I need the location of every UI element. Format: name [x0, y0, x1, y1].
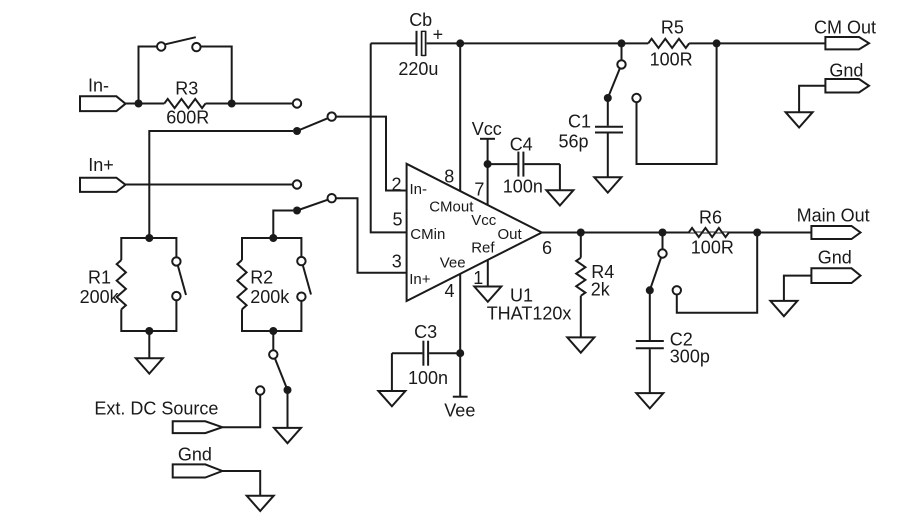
wire gnd right — [784, 276, 812, 301]
svg-text:+: + — [433, 25, 444, 45]
svg-text:5: 5 — [393, 210, 403, 230]
svg-text:Ext. DC Source: Ext. DC Source — [94, 399, 218, 419]
wire gnd top right — [799, 86, 825, 112]
svg-text:Vcc: Vcc — [472, 119, 502, 139]
svg-text:Main Out: Main Out — [797, 205, 870, 225]
resistor R1 network box — [121, 238, 176, 260]
ground pin 1 — [474, 287, 501, 302]
wire pin 4 Vee — [459, 274, 461, 397]
node junction C1 switch rail — [618, 39, 626, 47]
svg-text:THAT120x: THAT120x — [487, 303, 572, 323]
svg-text:U1: U1 — [510, 285, 533, 305]
node junction R6 right — [753, 229, 761, 237]
svg-text:2: 2 — [392, 174, 402, 194]
input connector Ext. DC Source — [173, 421, 223, 433]
svg-text:C4: C4 — [510, 135, 533, 155]
svg-text:Out: Out — [498, 226, 523, 243]
resistor R4 — [580, 233, 582, 258]
svg-text:6: 6 — [542, 238, 552, 258]
svg-text:R3: R3 — [175, 78, 198, 98]
switch S3 bypass — [157, 42, 165, 50]
wire CMin pin 5 — [371, 43, 407, 232]
svg-text:4: 4 — [445, 281, 455, 301]
input connector In- — [80, 96, 126, 111]
capacitor Cb — [371, 42, 416, 44]
node junction C2 switch — [659, 229, 667, 237]
ground C2 — [636, 393, 663, 408]
switch S1 pole to pin2 — [293, 127, 301, 135]
capacitor C4 — [488, 163, 518, 165]
wire R2 bottom — [242, 301, 301, 331]
ground right — [770, 301, 797, 316]
svg-text:In-: In- — [88, 75, 109, 95]
svg-text:Gnd: Gnd — [818, 248, 852, 268]
svg-text:R1: R1 — [88, 268, 111, 288]
svg-text:R5: R5 — [661, 17, 684, 37]
op-amp U1 triangle — [407, 164, 542, 301]
svg-text:In+: In+ — [409, 271, 431, 288]
switch S5 across R2 — [297, 257, 305, 265]
node main loop terminal — [673, 286, 681, 294]
ground top right — [786, 112, 813, 127]
resistor R1 — [117, 260, 126, 309]
ground C4 — [559, 164, 561, 190]
node junction R4 — [577, 229, 585, 237]
svg-text:R6: R6 — [699, 208, 722, 228]
svg-text:2k: 2k — [591, 279, 611, 299]
switch S6 ext dc select — [272, 331, 274, 350]
wire gnd bottom — [222, 471, 260, 496]
switch S4 across R1 — [172, 257, 180, 265]
wire pin 7 Vcc — [487, 164, 489, 205]
svg-text:CMin: CMin — [410, 226, 445, 243]
node feedback terminal — [632, 94, 640, 102]
output connector Gnd right — [811, 268, 860, 283]
resistor R6 — [689, 228, 729, 237]
svg-text:In-: In- — [410, 181, 428, 198]
wire switch to pin 3 — [336, 198, 407, 273]
svg-text:R2: R2 — [250, 268, 273, 288]
ground R4 — [580, 296, 582, 338]
node junction R2 bottom — [269, 327, 277, 335]
switch S7 C1 select — [621, 43, 623, 60]
ground C3 — [391, 353, 393, 391]
svg-text:100n: 100n — [408, 368, 448, 388]
svg-text:3: 3 — [392, 252, 402, 272]
node junction C3 — [456, 349, 464, 357]
svg-text:100n: 100n — [503, 177, 543, 197]
ground C1 — [594, 177, 621, 192]
switch S8 C2 select — [662, 233, 664, 250]
svg-text:Vee: Vee — [444, 400, 475, 420]
svg-text:100R: 100R — [691, 238, 734, 258]
node junction R2 top — [269, 234, 277, 242]
output connector Main Out — [811, 226, 860, 239]
svg-text:7: 7 — [474, 180, 484, 200]
svg-text:C3: C3 — [414, 322, 437, 342]
wire R3 right to terminal — [206, 103, 293, 105]
wire top rail — [427, 42, 649, 44]
wire output pin 6 — [542, 232, 812, 234]
svg-text:C1: C1 — [568, 112, 591, 132]
wire R1 bottom — [121, 300, 176, 331]
wire pin 1 Ref — [487, 260, 489, 287]
power Vee terminal — [453, 396, 468, 398]
svg-text:1: 1 — [473, 268, 483, 288]
switch S2 pole to pin3 — [293, 207, 301, 215]
output connector CM Out — [825, 37, 869, 49]
ground R1 — [148, 331, 150, 358]
wire ext dc — [222, 395, 260, 428]
svg-text:Vee: Vee — [440, 254, 466, 271]
node open terminal In+ line — [293, 180, 301, 188]
svg-text:56p: 56p — [559, 131, 589, 151]
node junction right of R3 — [228, 100, 236, 108]
wire main feedback loop — [677, 233, 757, 313]
resistor R5 — [648, 39, 689, 48]
node junction Vcc pin7 — [484, 160, 492, 168]
svg-text:8: 8 — [444, 166, 454, 186]
wire pin 8 CMout — [459, 43, 461, 191]
wire switch to pin 2 — [336, 117, 407, 191]
resistor R2 — [237, 260, 246, 309]
capacitor C2 — [649, 290, 651, 340]
node junction R1 bottom — [145, 327, 153, 335]
wire R1 top to In- switch pole — [149, 131, 293, 238]
wire In+ to terminal — [126, 184, 293, 186]
power Vcc symbol — [480, 138, 495, 140]
resistor R2 network box — [242, 238, 301, 260]
node junction pin8 rail — [456, 39, 464, 47]
node open terminal In- line — [293, 99, 301, 107]
output connector Gnd top right — [825, 79, 869, 93]
svg-text:200k: 200k — [250, 287, 290, 307]
wire R2 top to In+ switch pole — [273, 211, 293, 239]
svg-text:100R: 100R — [650, 50, 693, 70]
wire feedback loop — [637, 43, 717, 164]
svg-text:Gnd: Gnd — [178, 444, 212, 464]
capacitor C1 — [607, 98, 609, 126]
wire R5 to CM Out — [689, 42, 825, 44]
svg-text:Gnd: Gnd — [829, 61, 863, 81]
wire R3 bypass left vertical — [139, 47, 157, 104]
node junction R5 right — [713, 39, 721, 47]
svg-text:Cb: Cb — [409, 10, 432, 30]
svg-text:220u: 220u — [398, 59, 438, 79]
node ext dc terminal — [256, 386, 264, 394]
svg-text:Vcc: Vcc — [471, 212, 497, 229]
svg-text:In+: In+ — [88, 155, 114, 175]
capacitor C3 — [429, 352, 460, 354]
wire R3 bypass right vertical — [201, 47, 232, 104]
input connector In+ — [80, 178, 126, 192]
node junction R1 top — [145, 234, 153, 242]
ground bottom — [247, 496, 274, 511]
ground switch S6 — [287, 390, 289, 428]
svg-text:600R: 600R — [166, 107, 209, 127]
wire In- to R3 — [126, 103, 165, 105]
input connector Gnd bottom — [173, 464, 223, 477]
resistor R3 — [164, 99, 205, 108]
svg-text:CMout: CMout — [429, 198, 474, 215]
svg-text:CM Out: CM Out — [814, 18, 876, 38]
node junction left of R3 — [135, 100, 143, 108]
svg-text:Ref: Ref — [471, 240, 495, 257]
svg-text:300p: 300p — [670, 347, 710, 367]
svg-text:200k: 200k — [80, 287, 120, 307]
